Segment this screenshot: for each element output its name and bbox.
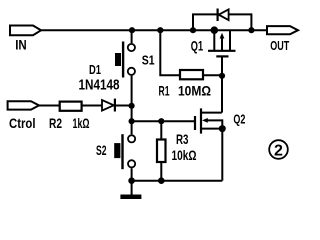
terminal IN	[10, 26, 41, 36]
wire node1 down to node2	[131, 106, 133, 122]
wire diode bypass loop	[193, 14, 251, 30]
wire Q1 gate lead down to Q2 drain	[221, 56, 223, 112]
ground	[120, 195, 141, 200]
svg-text:Q1: Q1	[191, 37, 203, 53]
node R1-Q1 gate	[219, 73, 225, 79]
diode D1	[102, 99, 115, 112]
svg-text:1N4148: 1N4148	[79, 78, 120, 94]
wire node2 down to S2	[131, 121, 133, 134]
node diode loop right	[248, 27, 254, 33]
node top S1	[129, 27, 135, 33]
node top R1 feed	[157, 27, 163, 33]
wire bottom rail	[132, 180, 223, 182]
svg-text:S1: S1	[142, 53, 155, 68]
node Ctrol-S1 junction	[129, 103, 135, 109]
wire R1 left feed	[160, 30, 180, 75]
wire Q2 source down	[221, 129, 223, 181]
wire D1 to node1	[116, 105, 132, 107]
svg-text:R3: R3	[176, 131, 189, 147]
node ground junction	[128, 177, 135, 184]
svg-text:1kΩ: 1kΩ	[73, 115, 90, 131]
wire gate rail to Q2	[132, 120, 195, 122]
wire ground stem	[131, 181, 133, 195]
terminal OUT	[267, 26, 298, 34]
svg-text:S2: S2	[96, 143, 107, 158]
svg-text:OUT: OUT	[270, 39, 289, 53]
node Q2 source-body	[219, 125, 226, 132]
wire top rail	[41, 29, 267, 31]
wire S2 bottom stub	[131, 168, 133, 181]
node diode loop left	[190, 27, 196, 33]
terminal Ctrol	[8, 101, 39, 109]
wire R2 to D1	[82, 105, 102, 107]
svg-text:D1: D1	[89, 62, 101, 77]
figure number 2 circled	[269, 140, 288, 159]
svg-text:R1: R1	[159, 83, 170, 99]
svg-text:Q2: Q2	[233, 112, 245, 127]
svg-text:10kΩ: 10kΩ	[172, 147, 197, 163]
node gate rail junction	[129, 118, 135, 124]
svg-text:R2: R2	[49, 115, 62, 131]
node Q1 source	[211, 26, 219, 34]
resistor R3	[157, 140, 166, 163]
wire R3 top lead	[160, 121, 162, 139]
wire Q2 drain lead	[201, 112, 222, 114]
svg-text:Ctrol: Ctrol	[9, 115, 36, 131]
switch S1	[115, 42, 135, 78]
diode body diode of Q1	[218, 9, 229, 22]
resistor R2	[60, 102, 82, 111]
transistor Q1	[208, 30, 236, 56]
node R3 bottom	[158, 177, 165, 184]
node R3 top	[158, 118, 164, 124]
resistor R1	[180, 70, 203, 79]
wire R1 right to gate node	[203, 74, 222, 76]
svg-text:IN: IN	[15, 37, 27, 52]
svg-text:10MΩ: 10MΩ	[178, 83, 211, 99]
wire S1 bottom stub	[131, 76, 133, 106]
svg-text:2: 2	[274, 142, 283, 159]
wire Ctrol rail	[39, 105, 60, 107]
transistor Q2	[195, 108, 222, 133]
switch S2	[114, 134, 135, 169]
wire R3 bottom lead	[160, 162, 162, 181]
wire S1 top stub	[131, 30, 133, 43]
